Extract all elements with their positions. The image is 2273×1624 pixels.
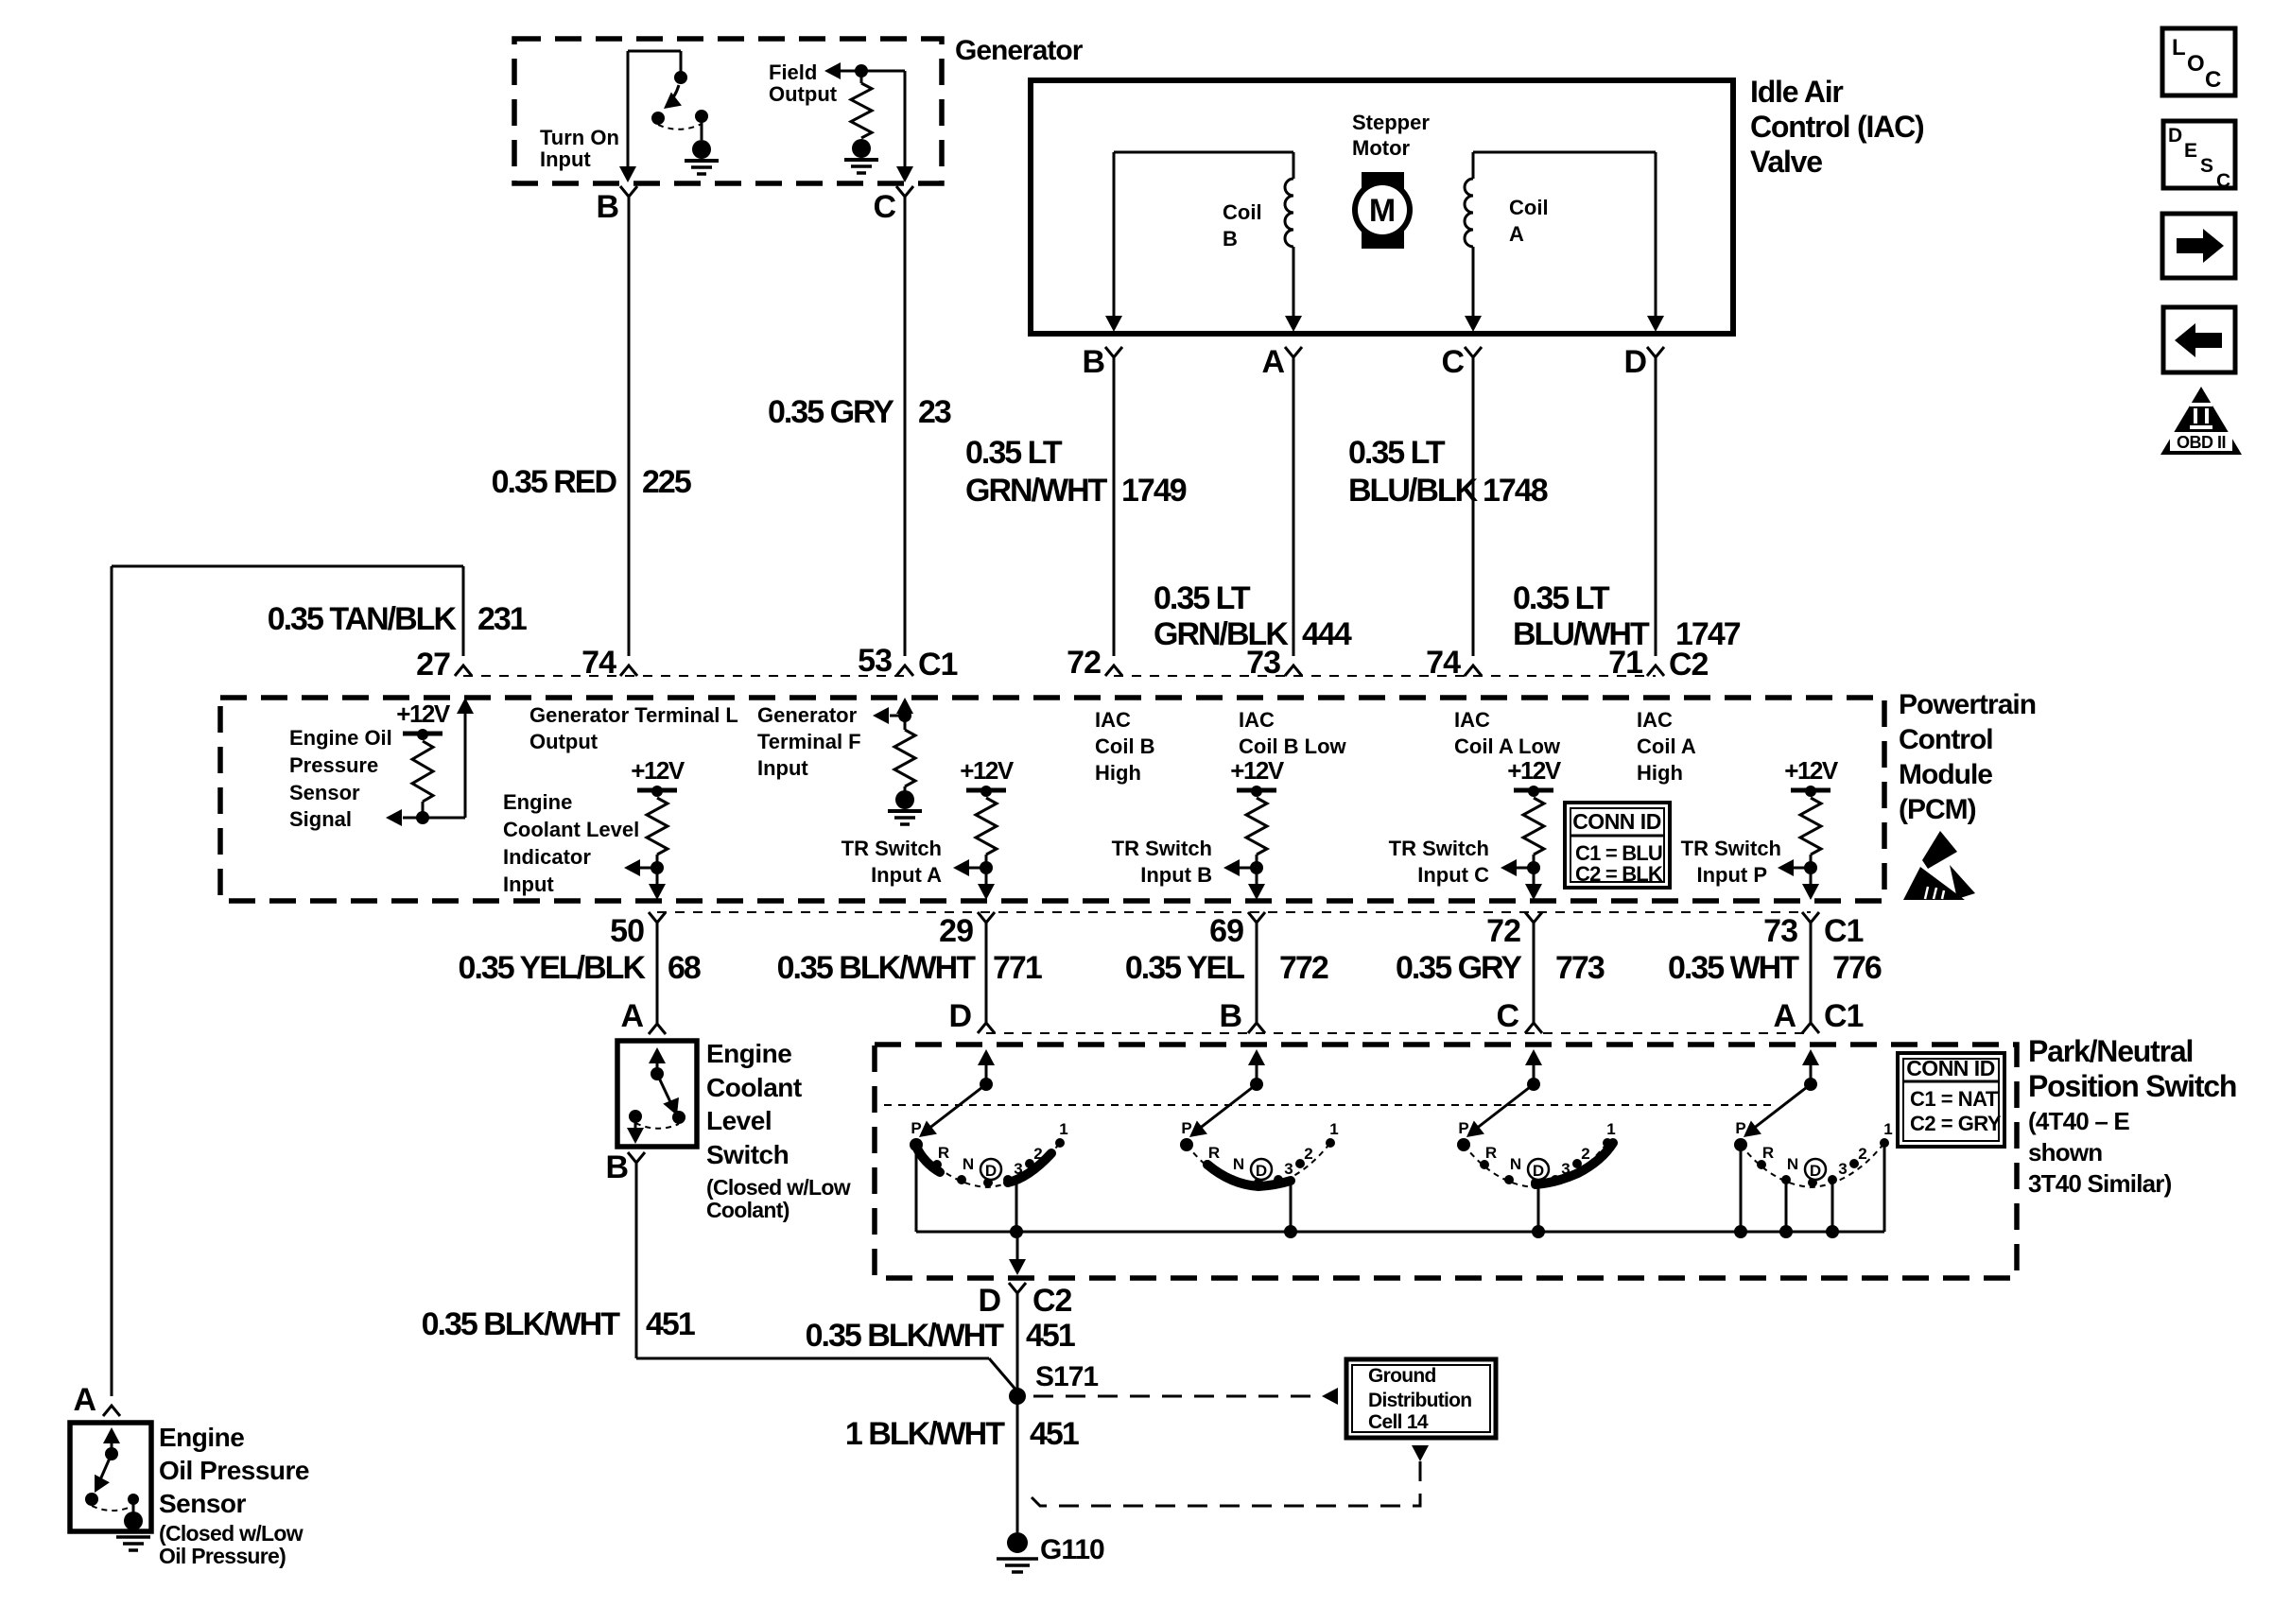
svg-text:C2 = GRY: C2 = GRY: [1910, 1112, 2002, 1135]
svg-text:1: 1: [1329, 1120, 1338, 1138]
svg-text:451: 451: [646, 1306, 695, 1342]
svg-text:Input P: Input P: [1696, 863, 1767, 887]
svg-text:D: D: [1256, 1162, 1267, 1180]
svg-text:71: 71: [1608, 645, 1642, 681]
svg-text:Signal: Signal: [289, 807, 352, 831]
svg-text:BLU/BLK: BLU/BLK: [1348, 473, 1479, 509]
svg-text:shown: shown: [2028, 1138, 2102, 1166]
svg-text:+12V: +12V: [1507, 756, 1562, 785]
svg-text:0.35 WHT: 0.35 WHT: [1668, 950, 1799, 986]
svg-text:Coil A Low: Coil A Low: [1454, 734, 1561, 758]
svg-text:(4T40 – E: (4T40 – E: [2028, 1107, 2129, 1135]
svg-text:0.35 RED: 0.35 RED: [492, 464, 617, 500]
svg-text:Distribution: Distribution: [1368, 1390, 1471, 1411]
svg-text:TR Switch: TR Switch: [1389, 837, 1489, 860]
svg-text:N: N: [1510, 1155, 1521, 1173]
svg-text:C: C: [1496, 998, 1518, 1034]
svg-text:CONN ID: CONN ID: [1906, 1056, 1995, 1080]
svg-text:B: B: [1219, 998, 1241, 1034]
svg-text:Coolant Level: Coolant Level: [503, 818, 639, 841]
svg-text:0.35 YEL/BLK: 0.35 YEL/BLK: [459, 950, 647, 986]
svg-text:73: 73: [1246, 645, 1280, 681]
svg-text:Coil B Low: Coil B Low: [1239, 734, 1347, 758]
svg-text:Generator Terminal L: Generator Terminal L: [529, 703, 738, 727]
svg-text:Control: Control: [1899, 724, 1993, 755]
svg-text:2: 2: [1304, 1145, 1312, 1163]
svg-text:0.35 BLK/WHT: 0.35 BLK/WHT: [777, 950, 977, 986]
svg-text:Valve: Valve: [1750, 145, 1822, 179]
svg-text:0.35 LT: 0.35 LT: [965, 435, 1063, 471]
svg-text:R: R: [1762, 1144, 1774, 1162]
svg-text:Input: Input: [757, 756, 808, 780]
svg-text:Oil Pressure): Oil Pressure): [159, 1544, 286, 1568]
svg-text:444: 444: [1302, 616, 1352, 652]
svg-text:C1: C1: [1824, 913, 1864, 949]
svg-text:3T40 Similar): 3T40 Similar): [2028, 1169, 2172, 1198]
svg-text:+12V: +12V: [1784, 756, 1839, 785]
svg-text:23: 23: [918, 394, 951, 430]
svg-text:50: 50: [610, 913, 644, 949]
svg-text:C1 = NAT: C1 = NAT: [1910, 1087, 1999, 1111]
svg-text:M: M: [1369, 193, 1396, 229]
svg-text:(Closed w/Low: (Closed w/Low: [159, 1521, 304, 1546]
svg-text:72: 72: [1486, 913, 1520, 949]
svg-text:68: 68: [668, 950, 701, 986]
svg-text:Input C: Input C: [1417, 863, 1489, 887]
svg-text:A: A: [73, 1382, 95, 1418]
svg-text:Coolant: Coolant: [706, 1073, 802, 1102]
svg-text:0.35 GRY: 0.35 GRY: [768, 394, 894, 430]
svg-text:Coil: Coil: [1509, 196, 1549, 219]
svg-text:Coil: Coil: [1223, 200, 1262, 224]
svg-text:Generator: Generator: [757, 703, 858, 727]
svg-text:A: A: [620, 998, 643, 1034]
svg-text:E: E: [2184, 140, 2197, 162]
svg-text:P: P: [1458, 1119, 1468, 1137]
svg-text:1: 1: [1059, 1120, 1067, 1138]
svg-text:0.35 BLK/WHT: 0.35 BLK/WHT: [422, 1306, 621, 1342]
svg-text:Oil Pressure: Oil Pressure: [159, 1456, 309, 1485]
svg-text:C1: C1: [1824, 998, 1864, 1034]
svg-text:R: R: [1485, 1144, 1497, 1162]
svg-text:R: R: [1208, 1144, 1220, 1162]
svg-text:+12V: +12V: [1230, 756, 1285, 785]
svg-text:C: C: [873, 189, 895, 225]
svg-text:IAC: IAC: [1637, 708, 1673, 732]
svg-text:2: 2: [1858, 1145, 1866, 1163]
svg-text:+12V: +12V: [396, 700, 451, 728]
svg-text:OBD II: OBD II: [2177, 433, 2226, 452]
svg-text:Level: Level: [706, 1106, 772, 1135]
svg-text:0.35 BLK/WHT: 0.35 BLK/WHT: [806, 1318, 1005, 1354]
svg-text:1749: 1749: [1121, 473, 1187, 509]
svg-text:0.35 LT: 0.35 LT: [1154, 580, 1251, 616]
svg-text:B: B: [1082, 344, 1104, 380]
svg-text:Park/Neutral: Park/Neutral: [2028, 1034, 2193, 1068]
svg-text:Sensor: Sensor: [289, 781, 360, 804]
svg-text:B: B: [1223, 227, 1238, 251]
svg-text:Output: Output: [529, 730, 599, 753]
svg-text:S171: S171: [1035, 1361, 1098, 1392]
svg-text:B: B: [596, 189, 618, 225]
svg-text:225: 225: [642, 464, 691, 500]
svg-text:Coil A: Coil A: [1637, 734, 1696, 758]
svg-text:D: D: [978, 1283, 1000, 1319]
svg-text:(PCM): (PCM): [1899, 794, 1976, 825]
svg-text:Engine: Engine: [503, 790, 572, 814]
svg-text:D: D: [1623, 344, 1646, 380]
svg-text:Input B: Input B: [1140, 863, 1212, 887]
svg-text:C2: C2: [1669, 647, 1709, 682]
svg-text:TR Switch: TR Switch: [842, 837, 942, 860]
svg-text:0.35 LT: 0.35 LT: [1348, 435, 1446, 471]
svg-text:Stepper: Stepper: [1352, 111, 1430, 134]
svg-text:Position Switch: Position Switch: [2028, 1069, 2236, 1103]
svg-text:GRN/WHT: GRN/WHT: [965, 473, 1108, 509]
svg-text:Engine: Engine: [706, 1039, 791, 1068]
svg-text:1: 1: [1883, 1120, 1892, 1138]
svg-text:Coil B: Coil B: [1095, 734, 1155, 758]
svg-text:3: 3: [1838, 1160, 1847, 1178]
svg-text:72: 72: [1067, 645, 1101, 681]
svg-text:Motor: Motor: [1352, 136, 1411, 160]
svg-text:D: D: [2168, 125, 2182, 147]
svg-text:IAC: IAC: [1454, 708, 1490, 732]
svg-text:29: 29: [939, 913, 973, 949]
svg-text:R: R: [938, 1144, 949, 1162]
svg-text:L: L: [2172, 35, 2186, 60]
svg-text:High: High: [1095, 761, 1141, 785]
svg-text:C: C: [2205, 67, 2221, 93]
svg-text:O: O: [2187, 51, 2205, 77]
svg-text:N: N: [1787, 1155, 1798, 1173]
svg-text:Generator: Generator: [955, 35, 1084, 66]
svg-text:Sensor: Sensor: [159, 1489, 247, 1518]
svg-text:P: P: [911, 1119, 921, 1137]
svg-text:IAC: IAC: [1239, 708, 1275, 732]
svg-text:IAC: IAC: [1095, 708, 1131, 732]
svg-text:B: B: [605, 1149, 628, 1185]
svg-text:C: C: [2216, 170, 2230, 192]
svg-text:451: 451: [1030, 1416, 1079, 1452]
svg-text:1 BLK/WHT: 1 BLK/WHT: [845, 1416, 1005, 1452]
svg-text:231: 231: [477, 601, 527, 637]
svg-text:773: 773: [1555, 950, 1605, 986]
svg-text:772: 772: [1279, 950, 1328, 986]
svg-text:27: 27: [416, 647, 450, 682]
svg-text:Field: Field: [769, 60, 817, 84]
svg-text:TR Switch: TR Switch: [1681, 837, 1781, 860]
svg-text:776: 776: [1832, 950, 1882, 986]
svg-text:0.35 GRY: 0.35 GRY: [1396, 950, 1522, 986]
svg-text:73: 73: [1763, 913, 1797, 949]
svg-text:2: 2: [1581, 1145, 1589, 1163]
svg-text:C2 = BLK: C2 = BLK: [1575, 862, 1663, 886]
svg-text:+12V: +12V: [960, 756, 1015, 785]
svg-text:451: 451: [1026, 1318, 1075, 1354]
svg-text:69: 69: [1209, 913, 1243, 949]
svg-text:Switch: Switch: [706, 1140, 789, 1169]
svg-text:+12V: +12V: [631, 756, 685, 785]
svg-text:Input: Input: [540, 147, 591, 171]
svg-text:Idle Air: Idle Air: [1750, 75, 1843, 109]
svg-text:High: High: [1637, 761, 1683, 785]
svg-text:Output: Output: [769, 82, 838, 106]
svg-text:A: A: [1261, 344, 1284, 380]
svg-text:771: 771: [993, 950, 1042, 986]
svg-text:53: 53: [858, 643, 892, 679]
svg-text:0.35 TAN/BLK: 0.35 TAN/BLK: [268, 601, 458, 637]
svg-text:Control (IAC): Control (IAC): [1750, 110, 1924, 144]
svg-text:Engine: Engine: [159, 1423, 244, 1452]
svg-text:D: D: [985, 1162, 997, 1180]
svg-text:3: 3: [1284, 1160, 1293, 1178]
svg-text:A: A: [1773, 998, 1796, 1034]
svg-text:(Closed w/Low: (Closed w/Low: [706, 1175, 851, 1200]
svg-text:Indicator: Indicator: [503, 845, 591, 869]
svg-text:Module: Module: [1899, 759, 1992, 790]
svg-text:1: 1: [1606, 1120, 1615, 1138]
svg-text:C: C: [1441, 344, 1464, 380]
svg-text:Input A: Input A: [871, 863, 942, 887]
svg-text:P: P: [1735, 1119, 1745, 1137]
svg-text:0.35 YEL: 0.35 YEL: [1125, 950, 1244, 986]
svg-text:P: P: [1181, 1119, 1191, 1137]
svg-text:N: N: [1233, 1155, 1244, 1173]
svg-text:TR Switch: TR Switch: [1112, 837, 1212, 860]
svg-text:Coolant): Coolant): [706, 1198, 789, 1222]
svg-text:1748: 1748: [1483, 473, 1548, 509]
svg-text:A: A: [1509, 222, 1524, 246]
svg-text:D: D: [948, 998, 971, 1034]
svg-text:74: 74: [581, 645, 616, 681]
svg-text:Engine Oil: Engine Oil: [289, 726, 392, 750]
svg-text:C1: C1: [918, 647, 958, 682]
svg-text:Input: Input: [503, 872, 554, 896]
svg-text:D: D: [1810, 1162, 1821, 1180]
svg-text:74: 74: [1426, 645, 1461, 681]
svg-text:N: N: [963, 1155, 974, 1173]
svg-text:Turn On: Turn On: [540, 126, 619, 149]
svg-text:Pressure: Pressure: [289, 753, 378, 777]
svg-text:Powertrain: Powertrain: [1899, 689, 2036, 720]
svg-text:C2: C2: [1032, 1283, 1072, 1319]
svg-text:G110: G110: [1040, 1534, 1104, 1565]
svg-text:Ground: Ground: [1368, 1365, 1436, 1387]
svg-text:S: S: [2200, 155, 2213, 177]
svg-text:D: D: [1533, 1162, 1544, 1180]
svg-text:Terminal F: Terminal F: [757, 730, 861, 753]
svg-text:CONN ID: CONN ID: [1572, 809, 1661, 834]
svg-text:0.35 LT: 0.35 LT: [1513, 580, 1610, 616]
svg-text:Cell 14: Cell 14: [1368, 1411, 1429, 1433]
